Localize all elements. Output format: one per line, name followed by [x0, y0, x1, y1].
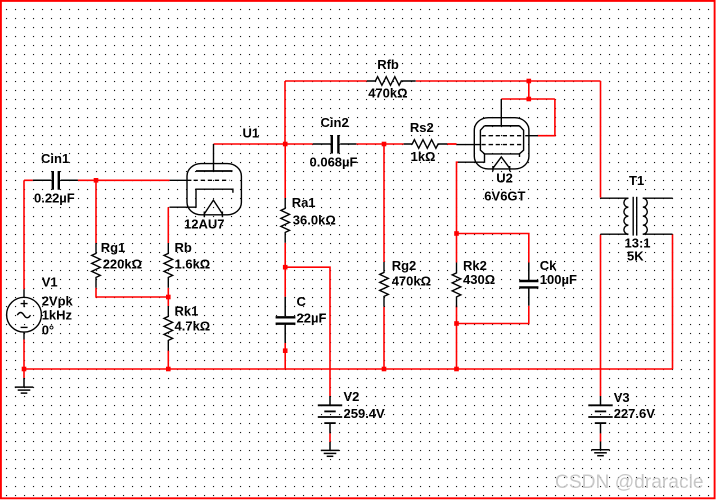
op-amp U1 triode 12AU7	[170, 144, 242, 217]
svg-text:470kΩ: 470kΩ	[392, 274, 431, 289]
label T1	[629, 173, 644, 188]
resistor Rs2	[404, 140, 448, 149]
wire V3 minus to its ground	[600, 433, 602, 441]
value 1.6kΩ	[175, 257, 211, 272]
battery V3	[588, 396, 612, 433]
svg-text:100µF: 100µF	[540, 272, 577, 287]
label U2	[496, 171, 513, 186]
svg-text:Rg1: Rg1	[101, 240, 126, 255]
wire U1 cathode down to Rb	[167, 207, 169, 243]
wire Ck bottom to node D	[457, 306, 529, 324]
svg-text:CSDN @draracle: CSDN @draracle	[555, 472, 704, 493]
node Rg1-Rb-Rk1 junction	[166, 295, 171, 300]
wire plate row to screen grid g2	[538, 99, 555, 136]
svg-text:1kΩ: 1kΩ	[411, 149, 436, 164]
value 1kΩ	[411, 149, 436, 164]
label U1	[243, 126, 260, 141]
svg-text:1.6kΩ: 1.6kΩ	[175, 257, 211, 272]
wire ground rail y=369	[24, 368, 673, 370]
svg-text:0.22µF: 0.22µF	[34, 191, 75, 206]
svg-text:V2: V2	[344, 389, 360, 404]
svg-text:Rb: Rb	[175, 240, 192, 255]
svg-text:V1: V1	[42, 275, 58, 290]
label V1	[42, 275, 58, 290]
wire node B to V2 plus	[285, 267, 330, 396]
label Rfb	[377, 57, 399, 72]
node C wire dot	[283, 348, 288, 353]
value 6V6GT	[484, 189, 525, 204]
svg-text:220kΩ: 220kΩ	[103, 257, 142, 272]
value 5K	[627, 249, 644, 264]
wire node C to Ck top	[457, 234, 529, 263]
value 470kΩ (Rfb)	[368, 86, 407, 101]
watermark CSDN	[555, 472, 704, 493]
resistor Rk1	[164, 306, 173, 351]
wire mid row y=144 (U1 plate to U2 grid)	[214, 143, 457, 145]
label Ck	[540, 258, 557, 273]
svg-text:Rk1: Rk1	[175, 304, 199, 319]
node Rk1 rail junction	[166, 367, 171, 372]
svg-text:Cin2: Cin2	[321, 115, 349, 130]
resistor Ra1	[281, 198, 290, 243]
transistor U2 beam tetrode 6V6GT	[457, 99, 539, 171]
value 470kΩ (Rg2)	[392, 274, 431, 289]
svg-text:Rg2: Rg2	[392, 258, 417, 273]
resistor Rb	[164, 243, 173, 288]
node Rk2 rail junction	[454, 367, 459, 372]
wire U2 plate row y=99	[501, 98, 555, 100]
capacitor Ck	[519, 263, 538, 306]
svg-text:6V6GT: 6V6GT	[484, 189, 525, 204]
node A U1 plate junction	[283, 142, 288, 147]
svg-text:Rk2: Rk2	[463, 258, 487, 273]
wire node B to C top	[284, 267, 286, 297]
wire drop from top rail to node A x=285	[284, 81, 286, 144]
svg-text:0°: 0°	[42, 322, 54, 337]
capacitor Cin2	[313, 135, 357, 154]
wire Rk1 bottom to ground rail	[167, 350, 169, 369]
svg-text:5K: 5K	[627, 249, 644, 264]
svg-text:1kHz: 1kHz	[42, 308, 73, 323]
wire Ra1 bottom to node B	[284, 243, 286, 267]
label Rb	[175, 240, 192, 255]
wire Rk2 bottom to ground rail through node D	[456, 306, 458, 369]
svg-text:Ra1: Ra1	[292, 195, 316, 210]
value 1kHz	[42, 308, 73, 323]
value 259.4V	[344, 406, 386, 421]
node C cathode junction	[454, 231, 459, 236]
svg-text:Rs2: Rs2	[410, 120, 434, 135]
wire Cin1 row y=180 to U1 grid	[24, 179, 170, 181]
value 2Vpk	[42, 294, 74, 309]
svg-text:U1: U1	[243, 126, 260, 141]
value 220kΩ	[103, 257, 142, 272]
svg-text:U2: U2	[496, 171, 513, 186]
node V1 ground rail junction	[22, 367, 27, 372]
value 13:1	[625, 235, 651, 250]
value 4.7kΩ	[175, 319, 211, 334]
svg-text:4.7kΩ: 4.7kΩ	[175, 319, 211, 334]
resistor Rg1	[92, 243, 101, 288]
label V3	[614, 390, 630, 405]
value 22µF	[297, 310, 327, 325]
node Rg2 rail junction	[382, 367, 387, 372]
svg-text:0.068µF: 0.068µF	[310, 155, 358, 170]
label V2	[344, 389, 360, 404]
value 100µF	[540, 272, 577, 287]
svg-text:22µF: 22µF	[297, 310, 327, 325]
label C	[297, 294, 307, 309]
wire Rg1 column x=96	[96, 180, 168, 297]
label Rg2	[392, 258, 417, 273]
wire C bottom to ground rail	[284, 343, 286, 369]
wire Rs2 to U2 grid stub	[447, 143, 456, 145]
value 0.22µF	[34, 191, 75, 206]
node plate row junction	[527, 97, 532, 102]
label Ra1	[292, 195, 316, 210]
wire top feedback rail y=81	[285, 80, 601, 82]
wire input column x=24 (Cin1 left to V1)	[23, 180, 25, 289]
svg-text:Cin1: Cin1	[41, 151, 69, 166]
ground (V3)	[591, 442, 609, 456]
wire V2 minus to its ground	[329, 433, 331, 442]
node B Ra1-C-V2 junction	[283, 265, 288, 270]
svg-text:227.6V: 227.6V	[614, 406, 656, 421]
wire U2 cathode down to node C	[457, 162, 459, 233]
node Cin1-Rg1 junction	[94, 178, 99, 183]
svg-text:12AU7: 12AU7	[184, 217, 224, 232]
value 430Ω	[463, 272, 495, 287]
ground (V1)	[15, 378, 33, 393]
wire Rb bottom to Rk1 top through node	[167, 288, 169, 306]
svg-text:430Ω: 430Ω	[463, 272, 495, 287]
value 36.0kΩ	[293, 212, 336, 227]
svg-text:36.0kΩ: 36.0kΩ	[293, 212, 336, 227]
ground (V2)	[321, 442, 339, 456]
svg-text:Ck: Ck	[540, 258, 557, 273]
node Cin2-Rs2-Rg2 junction	[382, 142, 387, 147]
transformer T1	[601, 197, 673, 236]
capacitor Cin1	[33, 171, 78, 190]
wire node A to Ra1 top	[284, 144, 286, 198]
svg-text:470kΩ: 470kΩ	[368, 86, 407, 101]
label Rs2	[410, 120, 434, 135]
capacitor C	[276, 297, 296, 343]
wire top rail down to T1 primary top	[600, 81, 602, 198]
battery V2	[318, 396, 342, 433]
svg-text:V3: V3	[614, 390, 630, 405]
svg-text:2Vpk: 2Vpk	[42, 294, 74, 309]
wire top rail down to U2 plate row	[528, 81, 530, 99]
wire Rg2 column x=384	[383, 144, 385, 369]
svg-text:Rfb: Rfb	[377, 57, 399, 72]
svg-text:259.4V: 259.4V	[344, 406, 386, 421]
label Rg1	[101, 240, 126, 255]
svg-text:T1: T1	[629, 173, 644, 188]
source V1	[7, 289, 42, 339]
node top rail to plate riser junction	[527, 79, 532, 84]
resistor Rfb	[367, 77, 416, 86]
wire V1 bottom to ground rail	[23, 340, 25, 379]
value 0.068µF	[310, 155, 358, 170]
value 227.6V	[614, 406, 656, 421]
node D Rk2-Ck junction	[454, 321, 459, 326]
wire node C to Rk2 top	[456, 234, 458, 263]
wire secondary bottom return x=672.5	[672, 234, 674, 369]
wire T1 primary bottom down to V3 plus	[600, 235, 602, 396]
svg-text:C: C	[297, 294, 307, 309]
label Cin2	[321, 115, 349, 130]
resistor Rk2	[452, 263, 461, 308]
label Rk2	[463, 258, 487, 273]
value 0deg	[42, 322, 54, 337]
resistor Rg2	[380, 262, 389, 307]
label Rk1	[175, 304, 199, 319]
label Cin1	[41, 151, 69, 166]
value 12AU7	[184, 217, 224, 232]
